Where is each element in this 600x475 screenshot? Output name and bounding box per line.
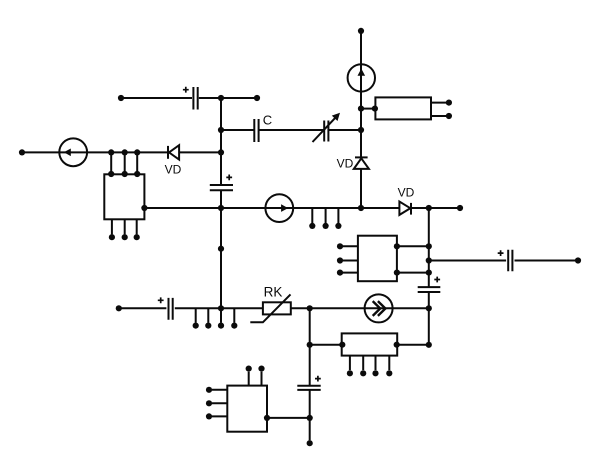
node x428.8 / cap row junction	[426, 257, 432, 263]
node x428.8 / RK-row junction	[426, 305, 432, 311]
node bus/RK-wire junction	[218, 305, 224, 311]
source G4 (current source, double chevron)	[365, 294, 393, 322]
svg-text:VD: VD	[398, 185, 415, 199]
varistor RK	[250, 294, 290, 322]
IC U2	[358, 236, 397, 282]
capacitor C7 polarized (series in RK row)	[158, 297, 173, 319]
node x361 / C-row junction	[358, 127, 364, 133]
capacitor C4 variable (trimmer arrow)	[313, 113, 341, 142]
node left end of source row	[19, 149, 25, 155]
svg-text:VD: VD	[337, 156, 354, 170]
wire tap to R1	[361, 108, 375, 110]
node top end of x361 branch	[358, 28, 364, 34]
wire U2 right pins	[397, 246, 429, 272]
node middle row / x361 junction	[358, 205, 364, 211]
node x309.7 / U4 row junction	[307, 415, 313, 421]
node bus/C-wire junction	[218, 127, 224, 133]
wire U4 row (y=417.9)	[267, 417, 310, 419]
wire U1 top pins	[111, 152, 137, 174]
wire source row (y=152.4)	[22, 151, 221, 153]
node right end of middle row	[457, 205, 463, 211]
node U4 left pin ends	[206, 387, 212, 420]
node junction top wire / vertical bus	[218, 95, 224, 101]
node U2 left pin ends	[337, 243, 343, 276]
node U3 right pin	[394, 342, 400, 348]
node U1 right pin	[141, 205, 147, 211]
node pin1 top of U1	[108, 149, 114, 155]
svg-text:C: C	[263, 113, 272, 128]
node RK row / x309.7 junction	[307, 305, 313, 311]
wire U2 left pins	[340, 246, 358, 272]
wire U4 top pins	[249, 372, 262, 386]
wire vertical branch x=361	[360, 31, 362, 208]
capacitor C2 polarized (series in vertical bus)	[210, 175, 233, 191]
node x428.8 / U2 pin1 junction	[426, 243, 432, 249]
svg-text:RK: RK	[264, 285, 283, 300]
capacitor C1 polarized (series in top wire)	[183, 87, 198, 110]
node U4 right pin	[264, 415, 270, 421]
node right end of output row	[575, 257, 581, 263]
node x309.7 / U3 row junction	[307, 342, 313, 348]
diode VD1 (points left)	[168, 145, 179, 159]
node x428.8 / U2 pin3 junction	[426, 270, 432, 276]
wire U3 bottom pins	[350, 356, 389, 371]
wire top net (y=98)	[121, 97, 257, 99]
node left end of RK row	[116, 305, 122, 311]
IC U3	[342, 333, 398, 355]
wire vertical bus x=221	[220, 98, 222, 308]
diode VD3 (points right)	[399, 202, 411, 215]
node U1 bottom pin ends	[109, 234, 140, 240]
wire U4 left pins	[212, 390, 228, 417]
wire U3 row (y=344.8)	[310, 344, 429, 346]
node U3 left pin	[339, 342, 345, 348]
node after VD3 junction	[426, 205, 432, 211]
node pin2 top of U1	[122, 149, 128, 155]
node x361 / R1 tap junction	[358, 106, 364, 112]
resistor R1 (box component top right)	[375, 97, 431, 119]
source G1 (current source, arrow left)	[59, 138, 87, 166]
node pin3 top of U1	[134, 149, 140, 155]
node bottom end of x309.7 branch	[307, 440, 313, 446]
node U2 right pin dots	[394, 243, 400, 276]
capacitor C8 polarized (series in x309.7 branch)	[297, 376, 321, 390]
node R1 left edge	[372, 106, 378, 112]
IC U4	[227, 386, 267, 432]
node bus/diode-wire junction	[218, 149, 224, 155]
node right end of top wire	[254, 95, 260, 101]
wire U1 bottom pins	[112, 219, 137, 234]
wire capacitor row (y=130)	[221, 129, 361, 131]
capacitor C5 polarized (series in x428.8 branch)	[418, 277, 441, 292]
node x428.8 / U3 row junction	[426, 342, 432, 348]
node stub pin ends	[309, 223, 341, 229]
node RK row stub ends	[193, 323, 238, 329]
wire vertical branch x=309.7	[309, 308, 311, 440]
wire middle source row (y=208)	[144, 207, 460, 209]
IC U1	[104, 174, 144, 219]
node bus/source-wire junction	[218, 205, 224, 211]
wire stub pins below middle row	[312, 208, 338, 223]
node U3 bottom pin ends	[347, 370, 393, 376]
wire R1 right pins	[431, 103, 446, 116]
node U4 top pin ends	[246, 366, 265, 372]
node R1 right pin ends	[446, 100, 452, 120]
source G3 (current source, arrow up)	[348, 64, 375, 91]
svg-text:VD: VD	[165, 163, 182, 177]
node left end of top wire	[118, 95, 124, 101]
capacitor C3	[254, 119, 258, 142]
wire stub pins below RK row	[196, 308, 235, 322]
wire RK row (y=308.3)	[119, 307, 429, 309]
diode VD2 (points up)	[354, 157, 369, 169]
wire vertical branch x=428.8	[428, 208, 430, 345]
capacitor C6 polarized (series in output row)	[498, 250, 513, 272]
source G2 (current source, arrow right)	[265, 194, 293, 222]
wire output row (y=260.5)	[429, 260, 578, 262]
node mid-bus junction	[218, 246, 224, 252]
node U1 top pin dots on box edge	[108, 171, 140, 177]
